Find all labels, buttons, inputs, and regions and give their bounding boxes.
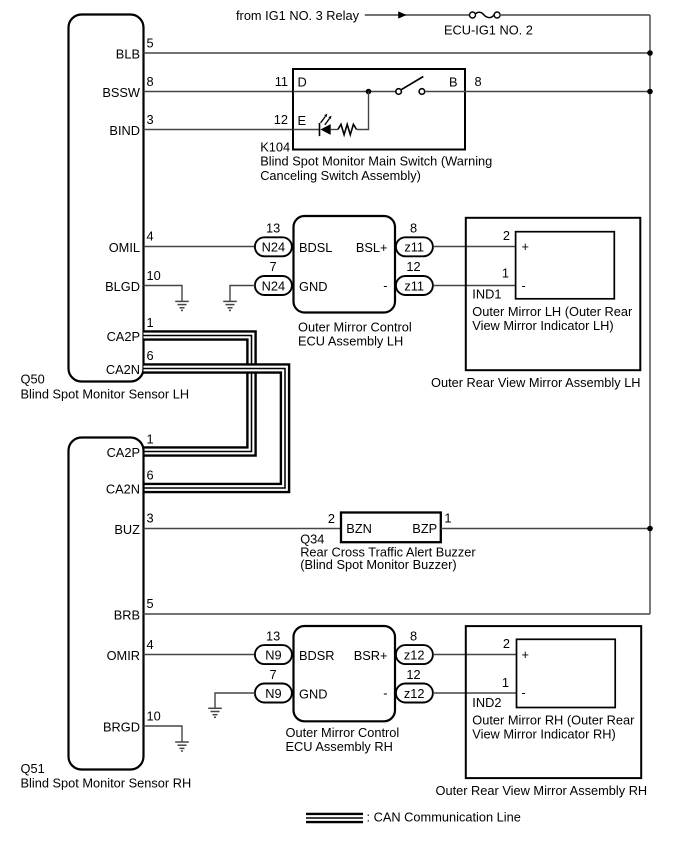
- svg-text:2: 2: [503, 228, 510, 243]
- ground: BLGD: [175, 301, 189, 310]
- svg-text:N9: N9: [265, 686, 281, 701]
- svg-text:BSR+: BSR+: [354, 648, 388, 663]
- svg-text:K104: K104: [260, 140, 290, 155]
- svg-text:CA2P: CA2P: [107, 329, 140, 344]
- connector N9 (row 2): [255, 684, 292, 703]
- junction: LED branch on switch wire: [366, 89, 372, 95]
- svg-text:+: +: [522, 647, 529, 662]
- wire: right vertical bus: [649, 15, 651, 614]
- svg-text:1: 1: [502, 675, 509, 690]
- legend: CAN line sample: [306, 813, 363, 824]
- ground: ECU RH GND: [208, 708, 222, 717]
- svg-text:3: 3: [147, 112, 154, 127]
- connector N24 (row 1): [255, 237, 292, 256]
- svg-text:Outer Mirror Control: Outer Mirror Control: [286, 725, 400, 740]
- svg-text:1: 1: [147, 432, 154, 447]
- svg-text:OMIR: OMIR: [107, 648, 140, 663]
- svg-text:z12: z12: [404, 648, 425, 663]
- wire: BRB to right bus: [144, 613, 651, 615]
- svg-text:1: 1: [147, 315, 154, 330]
- svg-text:Blind Spot Monitor Main Switch: Blind Spot Monitor Main Switch (Warning: [260, 154, 492, 169]
- svg-text:BDSL: BDSL: [299, 240, 332, 255]
- assembly: Outer Rear View Mirror Assembly LH box: [466, 218, 641, 370]
- wire: OMIR to N9: [144, 654, 255, 656]
- wire: BSR+ to indicator +: [433, 654, 517, 656]
- wire: BLGD to ground: [144, 286, 183, 302]
- svg-text:12: 12: [406, 667, 420, 682]
- switch contact circle right: [419, 89, 425, 95]
- resistor in K104: [338, 124, 357, 134]
- indicator IND1 box: [516, 232, 615, 299]
- svg-text:Outer Mirror RH (Outer Rear: Outer Mirror RH (Outer Rear: [472, 713, 635, 728]
- svg-text:Q50: Q50: [21, 372, 45, 387]
- svg-text:2: 2: [503, 636, 510, 651]
- wire: OMIL to N24: [144, 246, 255, 248]
- svg-text:BRB: BRB: [114, 608, 140, 623]
- svg-text:BSSW: BSSW: [102, 85, 141, 100]
- svg-text:10: 10: [147, 268, 161, 283]
- wire: fuse to right bus: [500, 14, 650, 16]
- svg-text:BSL+: BSL+: [356, 240, 388, 255]
- svg-text:13: 13: [266, 220, 280, 235]
- junction: BLB on right bus: [647, 50, 653, 56]
- svg-text:CA2N: CA2N: [106, 362, 140, 377]
- assembly: Outer Rear View Mirror Assembly RH box: [466, 626, 641, 778]
- connector z12 (row 2): [396, 684, 433, 703]
- switch lever: [401, 77, 423, 90]
- svg-text:Outer Mirror Control: Outer Mirror Control: [298, 320, 412, 335]
- svg-text:N24: N24: [262, 240, 285, 255]
- wire: BSL+ to indicator +: [433, 246, 516, 248]
- svg-text:13: 13: [266, 628, 280, 643]
- svg-text:IND1: IND1: [472, 287, 501, 302]
- junction: BZP on right bus: [647, 526, 653, 532]
- buzzer Q34 box: [341, 513, 441, 543]
- ECU U-RH: Outer Mirror Control ECU Assembly RH box: [294, 626, 396, 721]
- svg-text:Q51: Q51: [21, 761, 45, 776]
- wire: switch B to right bus: [425, 91, 650, 93]
- svg-text:1: 1: [444, 510, 451, 525]
- LED emission arrow 1: [321, 116, 326, 122]
- fuse ECU-IG1 NO. 2: left terminal circle: [470, 12, 476, 18]
- svg-text:GND: GND: [299, 279, 327, 294]
- svg-text:4: 4: [147, 637, 154, 652]
- svg-text:View Mirror Indicator LH): View Mirror Indicator LH): [472, 318, 613, 333]
- svg-text:1: 1: [502, 266, 509, 281]
- arrowhead on IG1 feed wire: [398, 11, 406, 18]
- svg-text:11: 11: [275, 74, 288, 89]
- svg-text:B: B: [449, 74, 458, 89]
- svg-text:Blind Spot Monitor Sensor LH: Blind Spot Monitor Sensor LH: [21, 387, 190, 402]
- wire: N9 row2 to ground: [215, 693, 255, 708]
- wire: IG1 feed to fuse: [365, 14, 470, 16]
- switch K104 box: [293, 69, 465, 150]
- svg-text:5: 5: [147, 596, 154, 611]
- svg-text:7: 7: [270, 259, 277, 274]
- svg-text:12: 12: [274, 112, 288, 127]
- wire: BLB to right bus: [144, 52, 651, 54]
- svg-text:GND: GND: [299, 687, 327, 702]
- wire: BSSW to K104 pin D: [144, 91, 294, 93]
- wire: minus to indicator -: [433, 285, 516, 287]
- wire: D to switch contact: [293, 91, 396, 93]
- svg-text:8: 8: [147, 74, 154, 89]
- svg-text:5: 5: [147, 35, 154, 50]
- svg-text:Blind Spot Monitor Sensor RH: Blind Spot Monitor Sensor RH: [21, 776, 192, 791]
- svg-text:ECU-IG1 NO. 2: ECU-IG1 NO. 2: [444, 23, 533, 38]
- ECU U-LH: Outer Mirror Control ECU Assembly LH box: [294, 216, 396, 313]
- svg-text:6: 6: [147, 348, 154, 363]
- LED D1 cathode bar: [319, 123, 321, 136]
- svg-text:Outer Mirror LH (Outer Rear: Outer Mirror LH (Outer Rear: [472, 304, 633, 319]
- svg-text:N24: N24: [262, 278, 285, 293]
- ground: ECU LH GND: [223, 301, 237, 310]
- svg-text:CA2P: CA2P: [107, 445, 140, 460]
- svg-text:4: 4: [147, 229, 154, 244]
- svg-text:z11: z11: [404, 278, 424, 293]
- svg-text:8: 8: [475, 74, 482, 89]
- svg-text:8: 8: [410, 220, 417, 235]
- svg-text:Outer Rear View Mirror Assembl: Outer Rear View Mirror Assembly LH: [431, 375, 641, 390]
- svg-text:BDSR: BDSR: [299, 648, 335, 663]
- ground: BRGD: [175, 742, 189, 751]
- svg-text:BUZ: BUZ: [114, 522, 140, 537]
- svg-text:E: E: [298, 113, 307, 128]
- CAN bus CA2N Q50 to Q51 (triple line): [144, 369, 286, 489]
- switch contact circle left: [396, 89, 402, 95]
- svg-text:BIND: BIND: [109, 123, 140, 138]
- svg-text:N9: N9: [265, 648, 281, 663]
- svg-text:BZP: BZP: [412, 521, 437, 536]
- connector z11 (row 1): [396, 237, 433, 256]
- connector Q50: Blind Spot Monitor Sensor LH box: [69, 15, 144, 382]
- svg-text:View Mirror Indicator RH): View Mirror Indicator RH): [472, 727, 615, 742]
- svg-text:8: 8: [410, 628, 417, 643]
- indicator IND2 box: [517, 639, 616, 707]
- CAN bus CA2P Q50 to Q51 (triple line): [144, 336, 252, 452]
- svg-text:BRGD: BRGD: [103, 720, 140, 735]
- svg-text:OMIL: OMIL: [109, 240, 140, 255]
- svg-text:2: 2: [328, 511, 335, 526]
- wire: BRGD to ground: [144, 726, 183, 742]
- svg-text:BZN: BZN: [346, 521, 372, 536]
- svg-text:12: 12: [406, 259, 420, 274]
- connector z11 (row 2): [396, 276, 433, 295]
- svg-text:ECU Assembly LH: ECU Assembly LH: [298, 334, 403, 349]
- wire: BZP to right bus: [441, 528, 650, 530]
- connector Q51: Blind Spot Monitor Sensor RH box: [69, 438, 144, 770]
- svg-text:-: -: [522, 278, 526, 293]
- wire: BUZ to buzzer BZN: [144, 528, 342, 530]
- svg-text:ECU Assembly RH: ECU Assembly RH: [286, 739, 393, 754]
- svg-text:D: D: [298, 74, 307, 89]
- wire: N24 row2 to ground: [230, 286, 255, 302]
- svg-text:z11: z11: [404, 240, 424, 255]
- LED emission arrow 2: [325, 118, 330, 124]
- fuse ECU-IG1 NO. 2: right terminal circle: [494, 12, 500, 18]
- connector N24 (row 2): [255, 276, 292, 295]
- wire: E to LED: [293, 129, 320, 131]
- svg-text:10: 10: [147, 709, 161, 724]
- svg-text:Outer Rear View Mirror Assembl: Outer Rear View Mirror Assembly RH: [436, 783, 648, 798]
- svg-text:-: -: [383, 278, 387, 293]
- svg-text:6: 6: [147, 468, 154, 483]
- wire: BIND to K104 pin E: [144, 129, 294, 131]
- svg-text:7: 7: [270, 667, 277, 682]
- svg-text:Canceling Switch Assembly): Canceling Switch Assembly): [260, 168, 421, 183]
- svg-text:+: +: [522, 239, 529, 254]
- connector z12 (row 1): [396, 645, 433, 664]
- wire: LED to resistor: [331, 129, 338, 131]
- fuse ECU-IG1 NO. 2: wavy element: [475, 12, 494, 17]
- wire: minus to indicator - (RH): [433, 692, 517, 694]
- svg-text:(Blind Spot Monitor Buzzer): (Blind Spot Monitor Buzzer): [300, 557, 456, 572]
- connector N9 (row 1): [255, 645, 292, 664]
- svg-text:z12: z12: [404, 686, 425, 701]
- svg-text:BLB: BLB: [116, 47, 140, 62]
- wire: resistor to junction, up to switch wire: [357, 92, 369, 130]
- svg-text:-: -: [383, 686, 387, 701]
- svg-text:IND2: IND2: [472, 695, 501, 710]
- LED D1 triangle: [320, 124, 330, 135]
- svg-text:from IG1 NO. 3 Relay: from IG1 NO. 3 Relay: [236, 8, 360, 23]
- svg-text:3: 3: [147, 511, 154, 526]
- svg-text:: CAN Communication Line: : CAN Communication Line: [367, 810, 521, 825]
- svg-text:BLGD: BLGD: [105, 279, 140, 294]
- svg-text:CA2N: CA2N: [106, 482, 140, 497]
- junction: B wire on right bus: [647, 89, 653, 95]
- svg-text:-: -: [522, 685, 526, 700]
